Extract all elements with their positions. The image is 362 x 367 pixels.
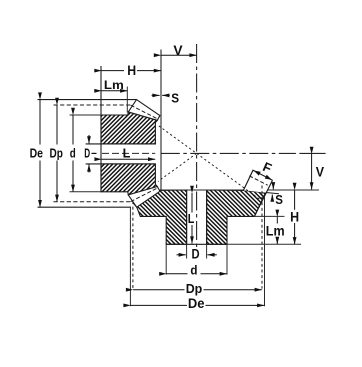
bottom gear body right half [207, 190, 266, 244]
svg-text:V: V [173, 43, 183, 58]
svg-text:Dp: Dp [50, 145, 63, 160]
left gear bore bottom line [86, 163, 156, 165]
left gear body lower half [101, 164, 157, 195]
bottom gear step line extension [254, 215, 284, 217]
dimension Dp left [56, 105, 58, 145]
bottom gear face line [159, 189, 319, 191]
svg-text:H: H [127, 63, 136, 78]
dimension d bottom [166, 273, 187, 275]
left gear OD line top (De extension) [38, 99, 137, 101]
De extension verticals of bottom gear [129, 207, 131, 306]
bottom gear right flank line (tooth edge + body slope) [254, 180, 272, 216]
left gear bottom tooth [128, 187, 160, 208]
svg-text:De: De [30, 145, 43, 160]
dimension V right [311, 154, 313, 189]
dimension D left arrows [88, 135, 90, 143]
dimension S bottom arrows [272, 183, 274, 189]
left gear back face line [100, 66, 102, 192]
left gear hub top extension (d) [70, 114, 102, 116]
svg-text:d: d [70, 145, 76, 160]
left gear bottom tooth pitch dashes [131, 188, 158, 202]
svg-text:D: D [84, 145, 90, 160]
pitch cone ray down-left [158, 153, 197, 181]
bottom gear bore right edge [206, 190, 208, 244]
dimension H right [294, 190, 296, 210]
svg-text:Dp: Dp [186, 281, 203, 296]
D leader dash [92, 152, 97, 154]
bottom gear hub bottom extension [227, 243, 301, 245]
left gear hub bottom extension (d) [70, 191, 102, 193]
svg-text:Lm: Lm [104, 78, 124, 92]
dimension Lm top [102, 90, 128, 92]
bottom gear body left half [130, 190, 187, 244]
left gear face plane extension vertical [160, 50, 162, 191]
bottom gear right tooth [243, 170, 272, 192]
vertical axis dash-dot [196, 44, 198, 247]
left gear Dp dashed extension bottom [54, 201, 132, 203]
svg-text:L: L [123, 146, 131, 161]
dimension Dp bottom [133, 289, 184, 291]
dimension L bottom (in bore) [191, 193, 193, 213]
svg-text:L: L [188, 211, 195, 226]
left gear step extension (Lm) [126, 87, 128, 113]
svg-text:V: V [316, 165, 325, 180]
left gear OD line bottom (De extension) [38, 206, 132, 208]
horizontal axis dash-dot right [161, 152, 296, 154]
svg-text:De: De [188, 296, 205, 311]
svg-text:d: d [190, 263, 197, 278]
left gear top tooth pitch dashes [131, 105, 158, 119]
dimension d left [72, 115, 74, 145]
left gear bore top line [86, 143, 156, 145]
D extension verticals (bore extended) [186, 244, 188, 258]
svg-text:H: H [290, 208, 299, 224]
horizontal axis dashed in bore [102, 152, 155, 154]
bottom gear root line extension (S ref) [243, 190, 279, 193]
bottom gear hub bottom line [166, 243, 227, 245]
svg-text:Lm: Lm [266, 224, 285, 239]
dimension F arrows on crown edge [254, 171, 261, 176]
Dp extension verticals of bottom gear [132, 201, 134, 289]
bottom gear bore left edge [186, 190, 188, 244]
svg-text:S: S [275, 192, 283, 207]
dimension V top [161, 54, 197, 56]
left gear top tooth [128, 100, 160, 121]
d extension verticals (hub walls extended) [165, 244, 167, 274]
svg-text:S: S [171, 91, 179, 106]
svg-text:D: D [191, 247, 199, 262]
dimension H top [102, 70, 125, 72]
dimension D bottom arrows [177, 254, 186, 256]
bottom gear right tooth pitch dashes [249, 176, 267, 185]
left gear body upper half [101, 112, 157, 144]
left gear Dp dashed extension top [54, 104, 132, 106]
dimension De bottom [131, 304, 187, 306]
dimension Lm right [276, 217, 278, 224]
dimension De left [39, 100, 41, 145]
dimension S left arrows [152, 94, 160, 96]
dimension L left (in bore) [102, 158, 156, 160]
pitch cone ray up-left through apex down-right [159, 126, 262, 201]
